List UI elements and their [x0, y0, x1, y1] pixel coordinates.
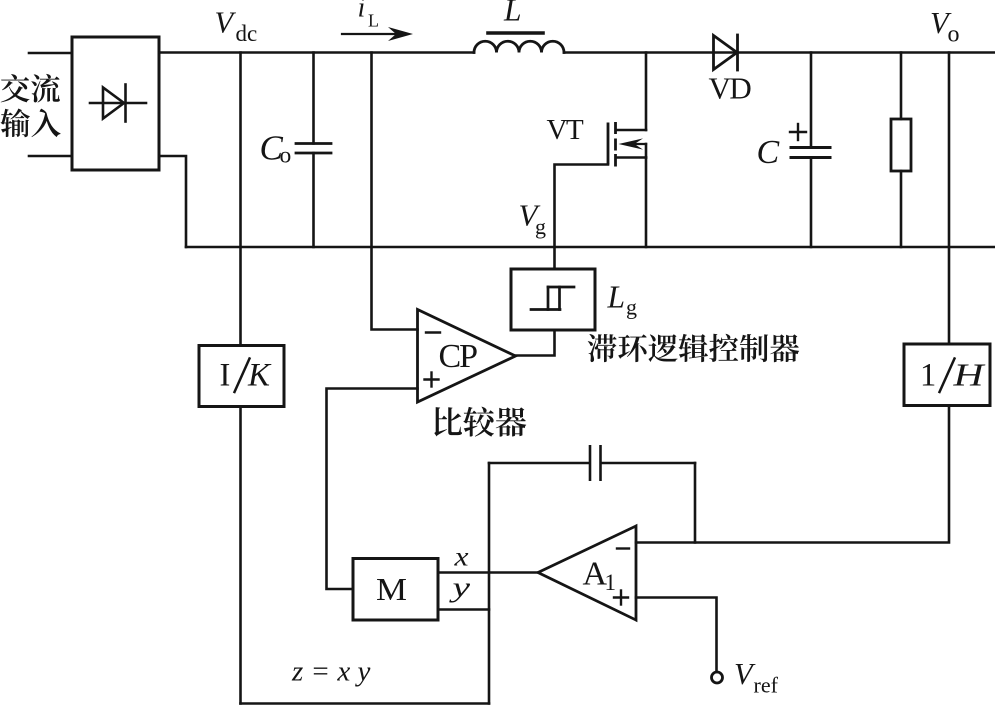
- capacitor C plates: [791, 148, 830, 158]
- load resistor body: [891, 119, 911, 171]
- wire: AC input stub top: [29, 52, 72, 55]
- capacitor Co top lead: [312, 53, 315, 144]
- block 1/H box: [904, 344, 990, 406]
- load resistor bottom lead: [900, 171, 903, 247]
- svg-text:L: L: [607, 280, 626, 315]
- svg-text:CP: CP: [439, 338, 478, 375]
- wire: AC input stub bottom: [29, 155, 72, 158]
- svg-text:1: 1: [605, 570, 617, 595]
- svg-text:ref: ref: [754, 673, 779, 698]
- inductor L: [474, 41, 564, 52]
- wire: bottom return rail: [186, 246, 995, 249]
- op-amp CP comparator triangle: [418, 310, 516, 403]
- wire: 1/H output down and left to A1 inverting input: [636, 406, 949, 543]
- svg-text:K: K: [247, 358, 272, 394]
- Vref terminal circle: [712, 672, 723, 683]
- wire: A1 plus input to Vref terminal: [636, 598, 717, 672]
- wire: CP plus input from multiplier M output: [327, 389, 418, 590]
- svg-text:L: L: [368, 11, 379, 31]
- svg-text:dc: dc: [236, 21, 258, 46]
- label: hysteresis logic controller caption (滞环逻辑控制器): [588, 334, 799, 362]
- CP plus sign: [425, 373, 439, 387]
- rectifier diode symbol: [90, 85, 146, 122]
- CP minus sign: [426, 331, 440, 333]
- svg-text:I: I: [220, 358, 231, 394]
- op-amp A1 triangle (points left): [538, 526, 636, 620]
- multiplier M box: [353, 559, 438, 621]
- capacitor Co bottom lead: [312, 153, 315, 247]
- wire: M y input: [438, 608, 489, 611]
- A1 minus sign: [617, 547, 629, 549]
- block 1/K box: [199, 346, 284, 407]
- svg-text:i: i: [358, 0, 366, 24]
- feedback capacitor wires: [489, 462, 589, 465]
- transistor VT (MOSFET): [608, 53, 646, 248]
- capacitor C top lead: [810, 53, 813, 148]
- svg-text:g: g: [535, 214, 546, 239]
- wire: feedback capacitor to A1 inverting input: [694, 463, 697, 543]
- svg-text:g: g: [626, 295, 637, 320]
- svg-text:o: o: [948, 22, 960, 48]
- svg-text:o: o: [280, 143, 292, 169]
- svg-text:L: L: [503, 0, 522, 28]
- svg-text:z = x y: z = x y: [291, 656, 370, 688]
- hysteresis symbol: [531, 287, 574, 310]
- wire: top rail Vdc node to Vo node: [159, 51, 474, 54]
- wire: bottom feedback run: [241, 702, 490, 705]
- label: AC input line2 (输入): [0, 108, 60, 137]
- label: AC input line1 (交流): [1, 74, 60, 103]
- svg-text:y: y: [448, 573, 471, 604]
- svg-text:VD: VD: [709, 71, 752, 106]
- capacitor Co plates: [296, 144, 331, 154]
- block Lg hysteresis controller box: [511, 269, 595, 330]
- A1 plus sign: [614, 591, 628, 605]
- rectifier bridge box: [72, 37, 159, 170]
- wire: Vo sense line down to 1/H block: [948, 53, 951, 345]
- svg-text:1: 1: [920, 358, 936, 394]
- svg-text:VT: VT: [547, 114, 584, 146]
- wire: CP output to hysteresis block: [516, 330, 555, 356]
- svg-text:C: C: [757, 134, 780, 171]
- current iL arrow: [342, 33, 398, 35]
- svg-text:H: H: [952, 357, 986, 393]
- capacitor C bottom lead: [810, 158, 813, 248]
- svg-text:M: M: [376, 572, 407, 607]
- wire: M x input from A1 output: [438, 571, 538, 574]
- wire: Vdc sense line down to 1/K block: [239, 53, 242, 346]
- svg-text:x: x: [453, 541, 468, 572]
- wire: 1/K output down: [239, 407, 242, 704]
- wire: gate lead to Vg: [555, 165, 609, 270]
- wire: vertical feedback riser: [488, 463, 491, 704]
- capacitor C polarity plus sign: [790, 124, 806, 140]
- load resistor top lead: [900, 53, 903, 120]
- label: comparator caption (比较器): [434, 407, 526, 437]
- feedback capacitor plates: [590, 445, 601, 481]
- wire: iL sense line down to comparator minus input: [372, 53, 418, 330]
- diode VD: [714, 35, 738, 70]
- wire: rectifier bottom output to return rail: [159, 156, 186, 247]
